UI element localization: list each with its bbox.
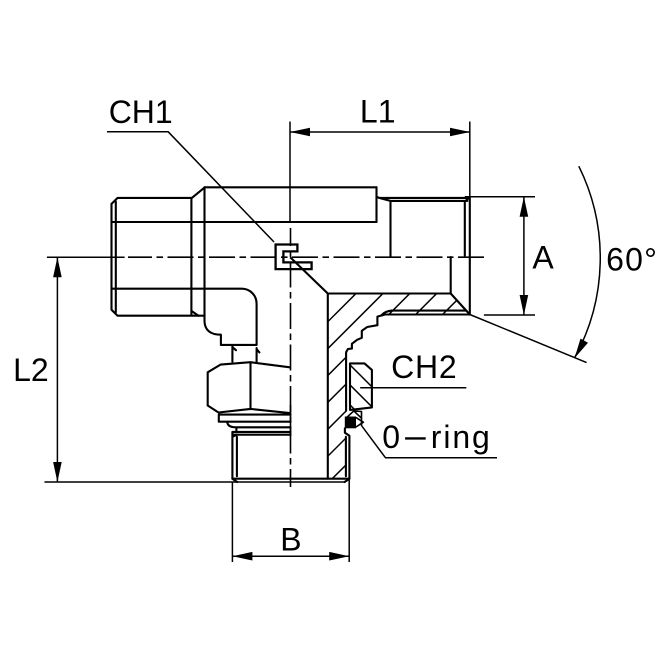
svg-text:L2: L2	[13, 352, 49, 388]
CH1 leader line	[107, 132, 274, 242]
L1 right arrow	[450, 128, 470, 137]
label O-ring dash	[405, 437, 426, 439]
stud outer edge in section below o-ring	[345, 428, 350, 478]
L2 dimension line	[56, 257, 58, 482]
right port thread start vertical	[389, 201, 391, 257]
hex locknut front view	[208, 362, 290, 413]
stud thread left edge above locknut	[232, 345, 236, 362]
right port thread crest line	[379, 198, 467, 201]
L1 right extension line	[469, 122, 471, 198]
shoulder line with fillet into branch	[112, 289, 257, 345]
center hex symbol CH1	[276, 245, 312, 270]
horizontal centerline	[128, 256, 484, 258]
bonded washer in section	[346, 411, 362, 426]
60-deg angle arc	[575, 166, 601, 358]
svg-text:A: A	[532, 239, 554, 275]
A top extension line	[465, 196, 535, 198]
CH2 leader line	[360, 387, 466, 389]
bore top line	[112, 221, 377, 223]
body block right edge	[375, 187, 377, 222]
body block top edge	[205, 186, 377, 188]
stud outer edge in section above o-ring	[345, 362, 347, 411]
L2 top extension line	[47, 256, 125, 258]
60-deg arc arrow	[575, 339, 589, 359]
bore bottom line in section	[328, 292, 451, 294]
right port face chamfer line	[465, 198, 469, 256]
right port section wedge	[385, 294, 470, 315]
vertical centerline of branch	[290, 228, 292, 487]
o-ring groove vee	[356, 418, 363, 427]
staircase profile of branch section	[346, 315, 385, 362]
A bottom extension line	[484, 314, 535, 316]
thread root line in section	[382, 311, 466, 316]
L1 left extension line	[289, 122, 291, 223]
washer stack right edge at centerline	[290, 405, 292, 435]
left port to body transition chamfers	[191, 187, 204, 315]
L2 bottom arrow	[53, 462, 62, 482]
svg-text:B: B	[280, 521, 301, 557]
B dimension line	[232, 555, 349, 557]
svg-text:L1: L1	[360, 94, 396, 130]
body block left edge	[205, 187, 221, 345]
left port face inner line	[115, 202, 117, 313]
stud thread stem front view	[232, 435, 237, 479]
A dimension line	[523, 197, 525, 315]
branch boss step to stud thread	[221, 344, 257, 346]
B left arrow	[232, 552, 252, 561]
retaining ring front view	[227, 422, 290, 435]
right port cone seat vertical	[450, 257, 452, 294]
L1 left arrow	[290, 128, 310, 137]
A top arrow	[520, 197, 529, 217]
B right extension line	[348, 479, 350, 562]
L1 dimension line	[290, 131, 470, 133]
B right arrow	[329, 552, 349, 561]
right port face outer	[469, 198, 471, 315]
section hatching of tee body	[141, 288, 523, 482]
washer under locknut front view	[219, 415, 291, 422]
stud bottom edge	[232, 479, 349, 482]
svg-text:ring: ring	[431, 419, 492, 455]
left male port outline	[112, 198, 205, 316]
o-ring cross-section	[345, 417, 356, 429]
undercut line above locknut	[257, 348, 260, 362]
locknut CH2 section outline	[350, 363, 372, 410]
60-deg cone line extended	[470, 315, 586, 363]
svg-text:0: 0	[382, 419, 400, 455]
section hatching of locknut CH2	[285, 360, 417, 412]
stud bottom face / L2 extension line	[45, 481, 345, 483]
B left extension line	[231, 482, 233, 562]
right port top edge	[377, 197, 469, 198]
L2 top arrow	[53, 257, 62, 277]
svg-text:60°: 60°	[606, 242, 658, 278]
svg-text:CH1: CH1	[109, 94, 173, 130]
O-ring leader line	[362, 426, 497, 458]
section break diagonal from center	[290, 257, 328, 293]
A bottom arrow	[520, 295, 529, 315]
stud thread root right in section	[345, 437, 347, 476]
branch bore wall in section	[327, 294, 329, 479]
svg-text:CH2: CH2	[391, 349, 457, 385]
